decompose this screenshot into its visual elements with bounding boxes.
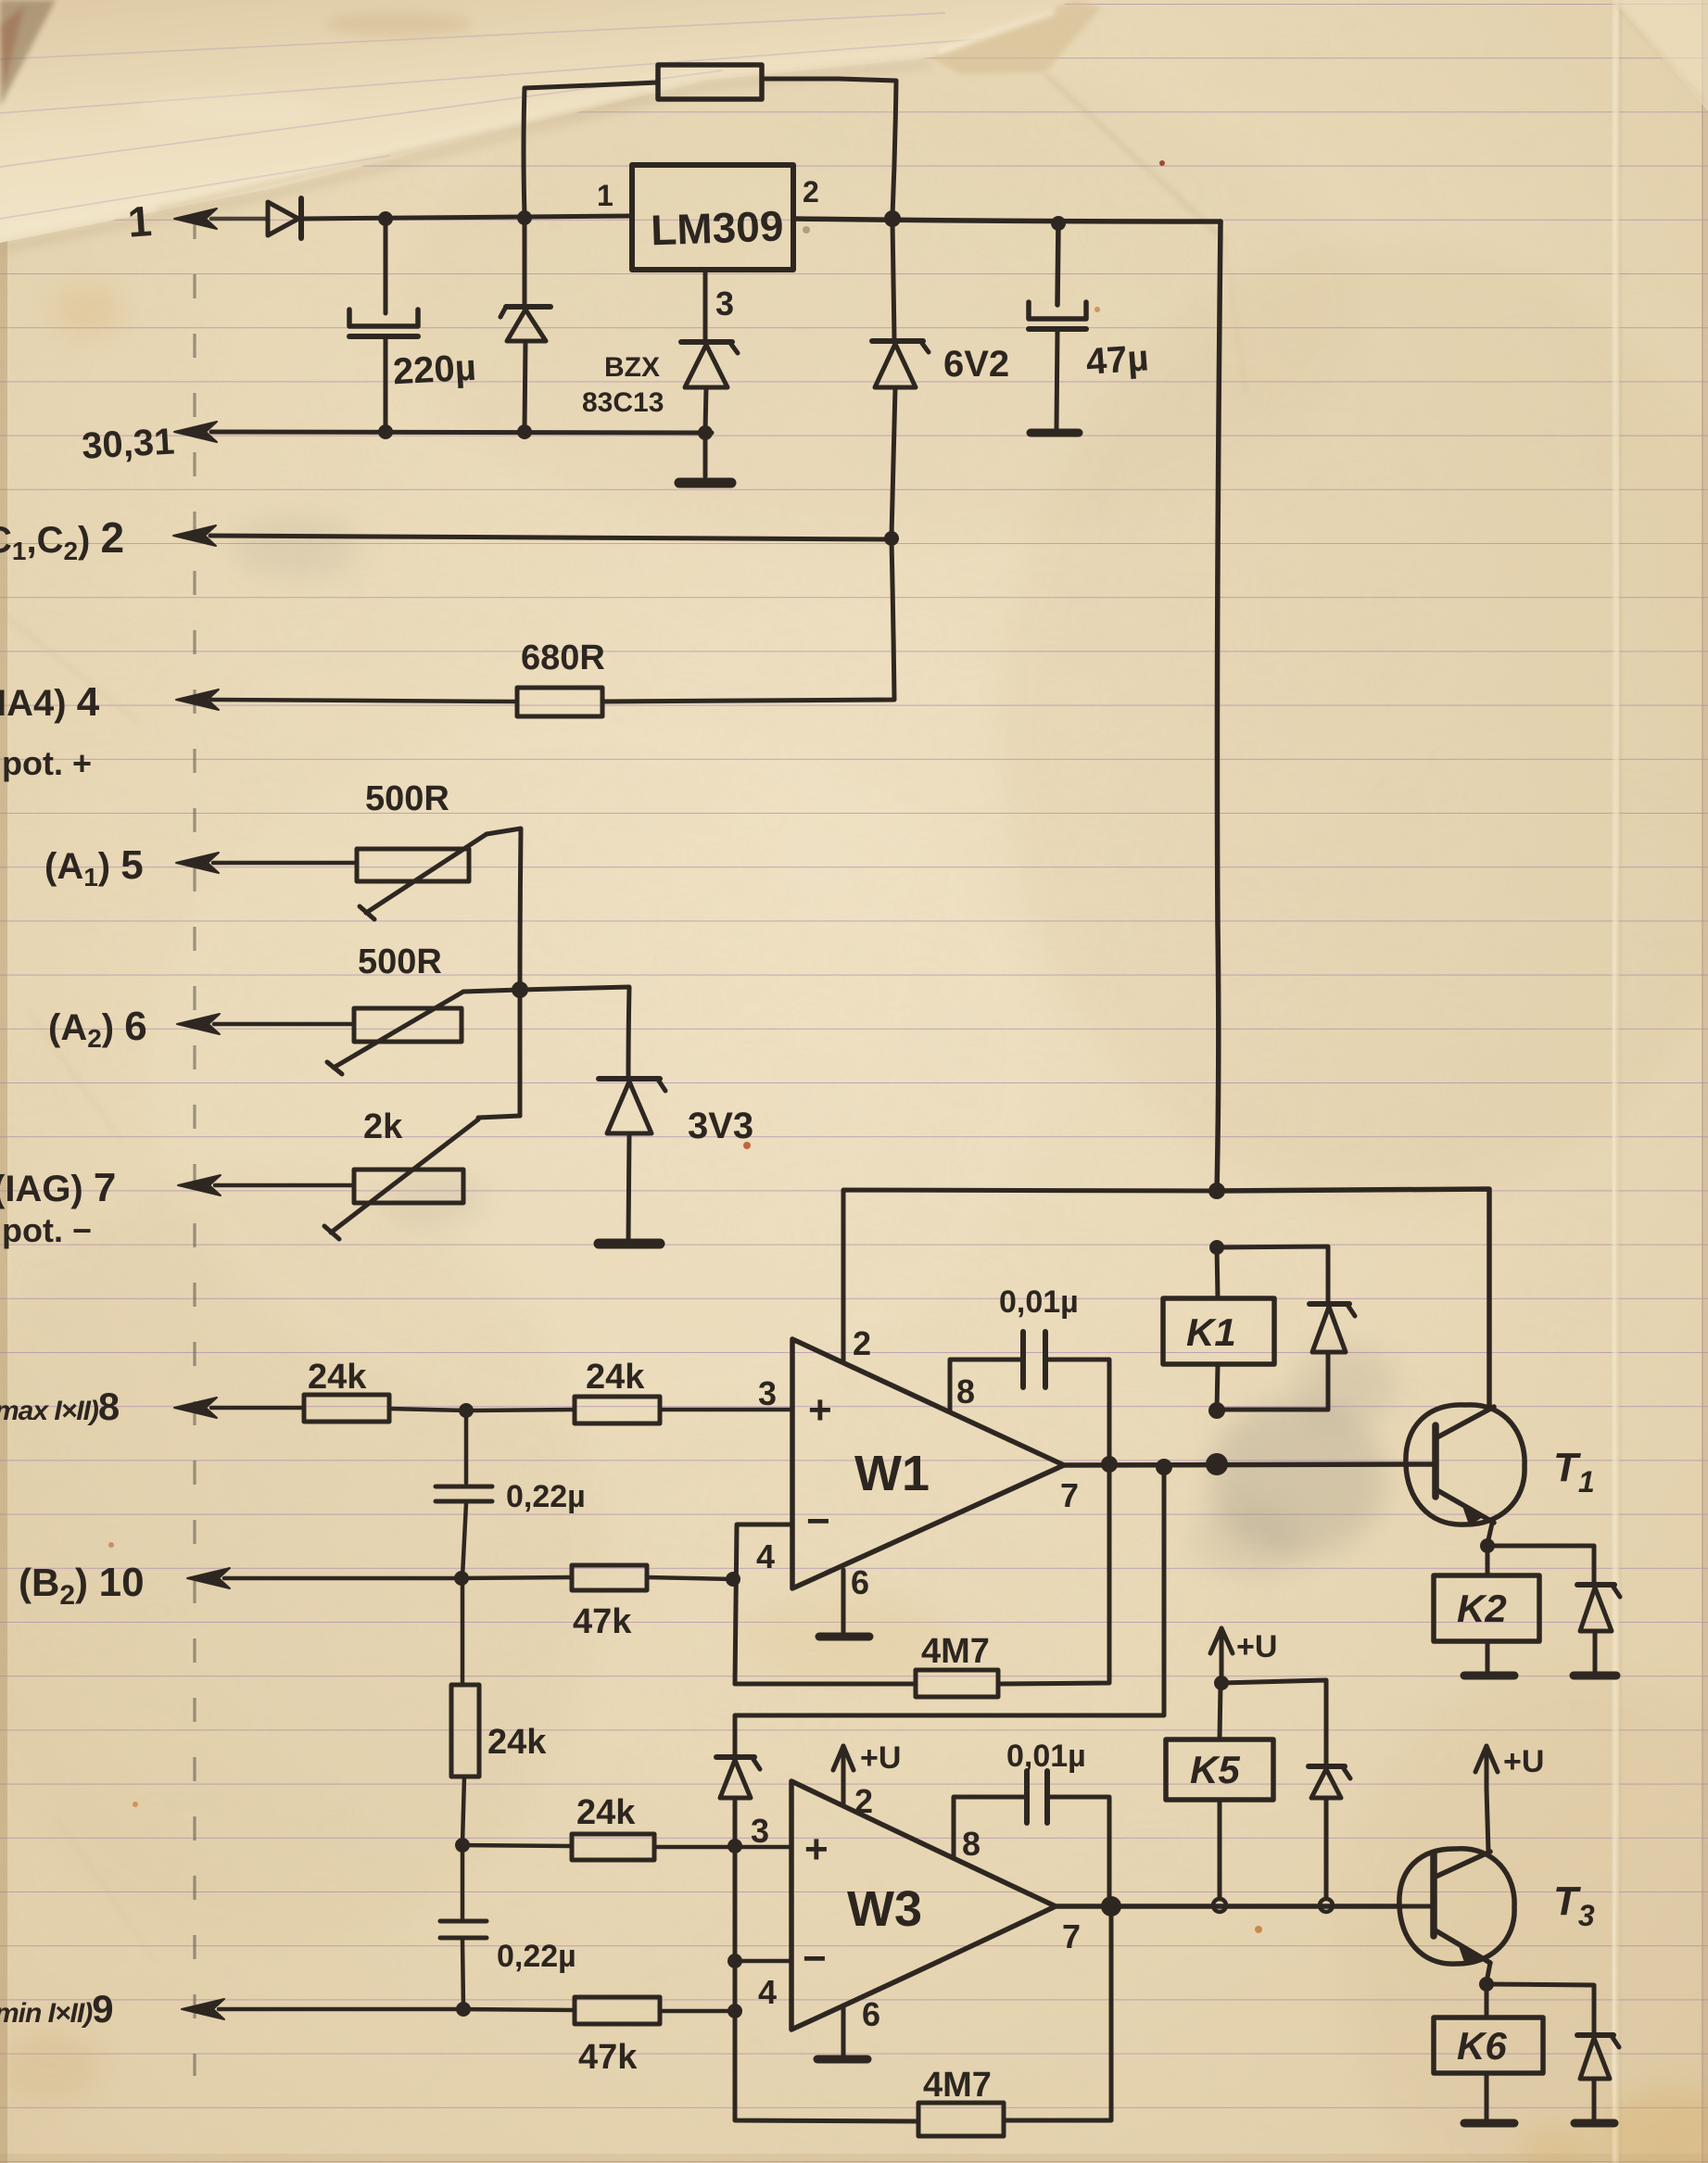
svg-text:+U: +U [1503,1744,1544,1779]
wire: +U node to K5 flyback diode [1221,1680,1326,1765]
wire: 680R to terminal 4 [211,700,517,702]
zener diode 6V2 [872,221,929,536]
ground (W1 pin 6) [819,1633,869,1641]
relay coil K2 [1434,1575,1539,1641]
op-amp W1 [792,1339,1064,1588]
node: pots common junction [512,981,528,998]
resistor 24k #3 (vertical) [451,1580,479,1843]
node: clamp diode / W3 pin3 [727,1839,742,1853]
wire: K1 coil bottom [1217,1364,1218,1410]
diode D1 (series, line 1) [268,198,301,238]
svg-text:K2: K2 [1457,1587,1507,1630]
transistor T3 [1399,1849,1514,1965]
wire: K1 flyback bottom to rail [1217,1408,1328,1412]
svg-text:3: 3 [758,1374,777,1412]
wire: W3 output [1056,1904,1401,1909]
node: line1 / 220u junction [378,211,393,226]
wire: K5 coil bottom to output line [1218,1800,1222,1899]
svg-text:3: 3 [751,1812,769,1850]
svg-text:1: 1 [126,196,153,247]
wire: K5 coil top [1220,1683,1221,1739]
terminal 8 arrow [174,1398,217,1418]
node: rail / K1 top [1209,1240,1224,1255]
zener diode 3V3 [599,1079,665,1240]
svg-text:500R: 500R [365,779,449,818]
wire: K6 flyback branch [1487,1984,1594,2033]
wire: T3 base from output line [1333,1904,1432,1909]
node: K5 on W3 output (ring) [1213,1899,1226,1912]
wire: node to 24k#4 [462,1845,572,1846]
svg-text:24k: 24k [576,1793,636,1832]
node: lower divider junction [455,1838,470,1853]
wire: T3 emitter down [1487,1963,1490,1982]
node: W1 output / W3 top rail [1156,1459,1172,1475]
wire: 24k#2 to W1 pin 3 [660,1408,792,1412]
node: +U feed for K5 [1214,1676,1229,1690]
svg-text:K5: K5 [1190,1748,1240,1791]
terminal 5 arrow [176,853,219,873]
wire: terminal 7 to pot 2k [215,1183,354,1188]
wire: terminal 1 to diode D1 [211,217,268,221]
svg-text:220µ: 220µ [392,348,477,393]
svg-text:W3: W3 [847,1881,922,1937]
svg-text:24k: 24k [586,1358,645,1397]
node: rail / K1 bottom [1208,1402,1225,1419]
svg-text:pot. +: pot. + [2,744,92,782]
relay coil K6 [1434,2018,1543,2073]
wire: R-top right side down to LM309 pin2 node [762,79,896,216]
wire: node to 47k#2 [463,2009,575,2010]
svg-text:pot. −: pot. − [2,1211,92,1249]
diode (K6 flyback) [1577,2035,1619,2119]
node: line1 / zener D2 junction [517,210,532,225]
relay coil K5 [1166,1739,1273,1800]
svg-text:2k: 2k [363,1107,403,1146]
ground (below BZX zener) [679,478,731,488]
resistor R-top (unlabelled, above LM309) [658,65,762,99]
svg-text:+U: +U [1236,1629,1277,1664]
wire: W1 output [1064,1464,1432,1465]
resistor 47k #2 (line 9) [575,1997,660,2024]
terminal 2 arrow [173,525,216,546]
node: K5 diode on W3 output (ring) [1320,1899,1333,1912]
ground (K6) [1464,2119,1514,2128]
right vertical crease (decorative) [1613,0,1617,2163]
wire: T3 collector to +U [1487,1789,1488,1852]
svg-text:W1: W1 [854,1446,930,1501]
top-left fold (decorative) [0,0,1708,394]
wire: D1 to LM309 pin 1 [304,216,632,219]
diode (W3 pin3 clamp) [716,1757,760,2119]
wire: T1 emitter down [1487,1524,1492,1544]
wire: R-top left side down to line 1 [524,82,658,215]
wire: terminal 8 to 24k [211,1406,304,1410]
node: W3 pin4 [727,1954,742,1968]
ground (below 3V3) [599,1239,660,1249]
svg-text:6: 6 [851,1563,869,1601]
capacitor 47u (electrolytic) [1029,223,1086,428]
diode (K2 flyback) [1577,1585,1620,1672]
svg-text:(IAG) 7: (IAG) 7 [0,1165,116,1210]
wire: 24k#4 to W3 pin 3 [654,1845,791,1850]
node: T1 emitter / K2 [1480,1538,1495,1553]
svg-text:24k: 24k [308,1358,367,1397]
svg-text:500R: 500R [358,942,442,981]
svg-text:IA4) 4: IA4) 4 [0,679,100,725]
wire: LM309 pin2 to right rail corner [793,219,1221,221]
wire: K1 coil top [1217,1247,1218,1298]
potentiometer 2k (line 7) [324,1119,478,1239]
svg-text:4M7: 4M7 [923,2066,992,2105]
wire: K2 coil top [1486,1546,1490,1575]
potentiometer 500R #1 (line 5) [357,834,487,919]
capacitor 220u (electrolytic) [349,219,418,430]
resistor 4M7 #1 (W1 feedback) [735,1464,1109,1697]
svg-text:+: + [804,1827,829,1872]
svg-text:680R: 680R [521,639,605,677]
svg-text:−: − [806,1499,830,1544]
faint creases left-bottom (decorative) [0,612,139,723]
svg-text:0,22µ: 0,22µ [506,1479,586,1514]
terminal 7 arrow [178,1175,221,1195]
svg-text:0,22µ: 0,22µ [497,1939,576,1974]
svg-text:0,01µ: 0,01µ [999,1284,1079,1320]
svg-text:30,31: 30,31 [81,422,175,467]
node: 47k / pin4 vertical junction [726,1572,740,1587]
terminal 1 arrow [174,209,217,229]
potentiometer 500R #2 (line 6) [327,992,463,1074]
relay coil K1 [1163,1298,1274,1364]
svg-text:4M7: 4M7 [921,1632,990,1671]
diode (K1 flyback) [1309,1304,1355,1410]
resistor 47k (line 10) [572,1565,647,1590]
svg-text:3V3: 3V3 [688,1106,753,1146]
wire: node to 24k#2 [466,1410,575,1410]
node: W1 output / K1 rail (big) [1206,1453,1228,1475]
wire: node to 47k [462,1577,572,1578]
resistor 4M7 #2 (W3 feedback) [735,1911,1111,2136]
ground (K2) [1464,1672,1514,1680]
ground (K6 flyback diode) [1575,2119,1614,2128]
svg-text:LM309: LM309 [650,201,784,254]
svg-text:83C13: 83C13 [582,387,664,418]
ground (below 47u) [1031,429,1079,437]
capacitor 0,01u #1 (W1 pin8 to output) [950,1332,1109,1461]
wire: W3 top rail from W1 output [735,1467,1164,1754]
wire: W1 pin 4 loop (left side) [735,1524,792,1684]
svg-text:−: − [803,1936,827,1981]
svg-text:47k: 47k [578,2038,638,2077]
node: line9 47k junction [727,2004,742,2018]
svg-text:2: 2 [853,1324,871,1362]
node: T3 emitter / K6 [1479,1977,1494,1992]
power arrow +U (W3 pin 2) [833,1746,854,1781]
capacitor 0,22u #2 [440,1847,487,2007]
svg-text:6V2: 6V2 [943,344,1009,385]
node: line8 divider junction [459,1403,474,1418]
svg-text:24k: 24k [487,1723,547,1762]
terminal 4 arrow [176,689,219,710]
wire: 30,31 rail [211,432,712,433]
transistor T1 [1406,1405,1525,1524]
svg-text:8: 8 [956,1372,975,1410]
svg-text:2: 2 [854,1782,873,1820]
wire: K2 flyback branch [1487,1546,1594,1583]
power arrow +U (K5) [1210,1628,1233,1683]
power arrow +U (T3 collector) [1475,1746,1498,1789]
wire: W1 pin 6 stub [841,1570,846,1633]
svg-text:BZX: BZX [604,352,660,383]
node: line 2 / 6V2 branch [884,531,899,546]
wire: terminal 10 to node [224,1576,462,1581]
op-amp W3 [791,1781,1056,2030]
svg-text:3: 3 [715,285,734,323]
svg-text:6: 6 [862,1995,880,2033]
ground (K2 flyback diode) [1574,1672,1616,1680]
wire: K6 coil top [1485,1984,1489,2018]
wire: line 2 (C,C2) to 6V2 branch [210,536,892,539]
diode (K5 flyback) [1309,1766,1350,1898]
wire: terminal 5 to pot 500R #1 [213,861,357,866]
svg-text:47µ: 47µ [1084,337,1149,383]
wire: 47k to W1 pin4 vertical [647,1577,733,1579]
terminal 10 arrow [187,1568,230,1588]
wire: common node to 3V3 zener [520,987,629,1077]
wire: K6 coil bottom [1485,2073,1489,2119]
ground (W3 pin 6) [817,2055,867,2064]
node: W1 output / 0,01u loop [1101,1456,1118,1473]
svg-text:4: 4 [756,1537,775,1575]
svg-text:0,01µ: 0,01µ [1006,1739,1086,1774]
svg-text:1: 1 [597,179,614,212]
svg-text:7: 7 [1060,1476,1079,1514]
node: line9 / 0,22u [456,2002,471,2017]
svg-text:47k: 47k [573,1602,632,1641]
wire: main +V rail (right side, vertical) [1217,221,1221,1192]
terminal 30,31 arrow [174,422,217,442]
svg-text:2: 2 [803,175,819,209]
resistor 680R [517,688,602,716]
wire: K1 flyback branch top [1217,1246,1328,1302]
terminal 9 arrow [182,1999,224,2019]
node: 220u on 30,31 [378,424,393,439]
svg-text:+U: +U [860,1740,901,1776]
resistor 24k #2 (line 8) [575,1397,660,1423]
node: LM309 pin2 / top resistor junction [884,210,901,227]
wire: W3 pin 4 [735,1959,791,1964]
capacitor 0,01u #2 (W3 pin8 to output) [954,1771,1109,1903]
wire: K2 coil bottom [1486,1641,1490,1672]
svg-text:+: + [808,1387,832,1433]
svg-text:K6: K6 [1457,2024,1507,2068]
wire: 2k wiper to common vertical [478,1116,520,1118]
wire: 47k#2 to pin4 vertical [660,2009,733,2014]
wire: W1 pin 2 up to rail [843,1190,1217,1360]
wire: terminal 6 to pot 500R #2 [214,1022,354,1027]
node: W3 output / 4M7 loop (big) [1101,1896,1121,1916]
wire: W3 pin 6 stub [841,2005,846,2055]
wire: common vertical down to 2k pot [518,992,523,1116]
capacitor 0,22u #1 [436,1412,492,1576]
svg-text:8: 8 [962,1825,981,1863]
node: line10 / 0,22u junction [454,1571,469,1586]
zener diode BZX 83C13 (LM309 pin3) [681,270,738,476]
svg-text:(B2) 10: (B2) 10 [19,1560,145,1611]
margin line + side rules (paper printing, decorative) [193,156,196,2076]
wire: rail to T1 collector [1217,1189,1489,1408]
node: BZX on 30,31 [698,425,713,440]
terminal 6 arrow [177,1014,220,1034]
wire: terminal 9 to node [219,2007,463,2012]
wire: 24k#1 to node [389,1409,466,1410]
wire: pot2 wiper to common node [463,990,520,992]
resistor 24k #4 (to W3 pin3) [572,1834,654,1860]
wire: pot1 wiper to common vertical [487,829,521,988]
zener diode D2 (line1 to 30,31) [500,219,550,430]
resistor 24k #1 (line 8) [304,1395,389,1422]
svg-text:7: 7 [1062,1917,1081,1955]
regulator U1 LM309 [632,165,793,270]
wire: W3 pin 2 stub [841,1781,846,1805]
svg-text:K1: K1 [1186,1310,1236,1354]
svg-text:4: 4 [758,1973,777,2011]
node: 47u junction [1051,216,1066,231]
node: rail / T1 collector branch [1208,1183,1225,1199]
wire: 6V2 branch down to line 4 corner [602,541,894,702]
node: D2 on 30,31 [517,424,532,439]
